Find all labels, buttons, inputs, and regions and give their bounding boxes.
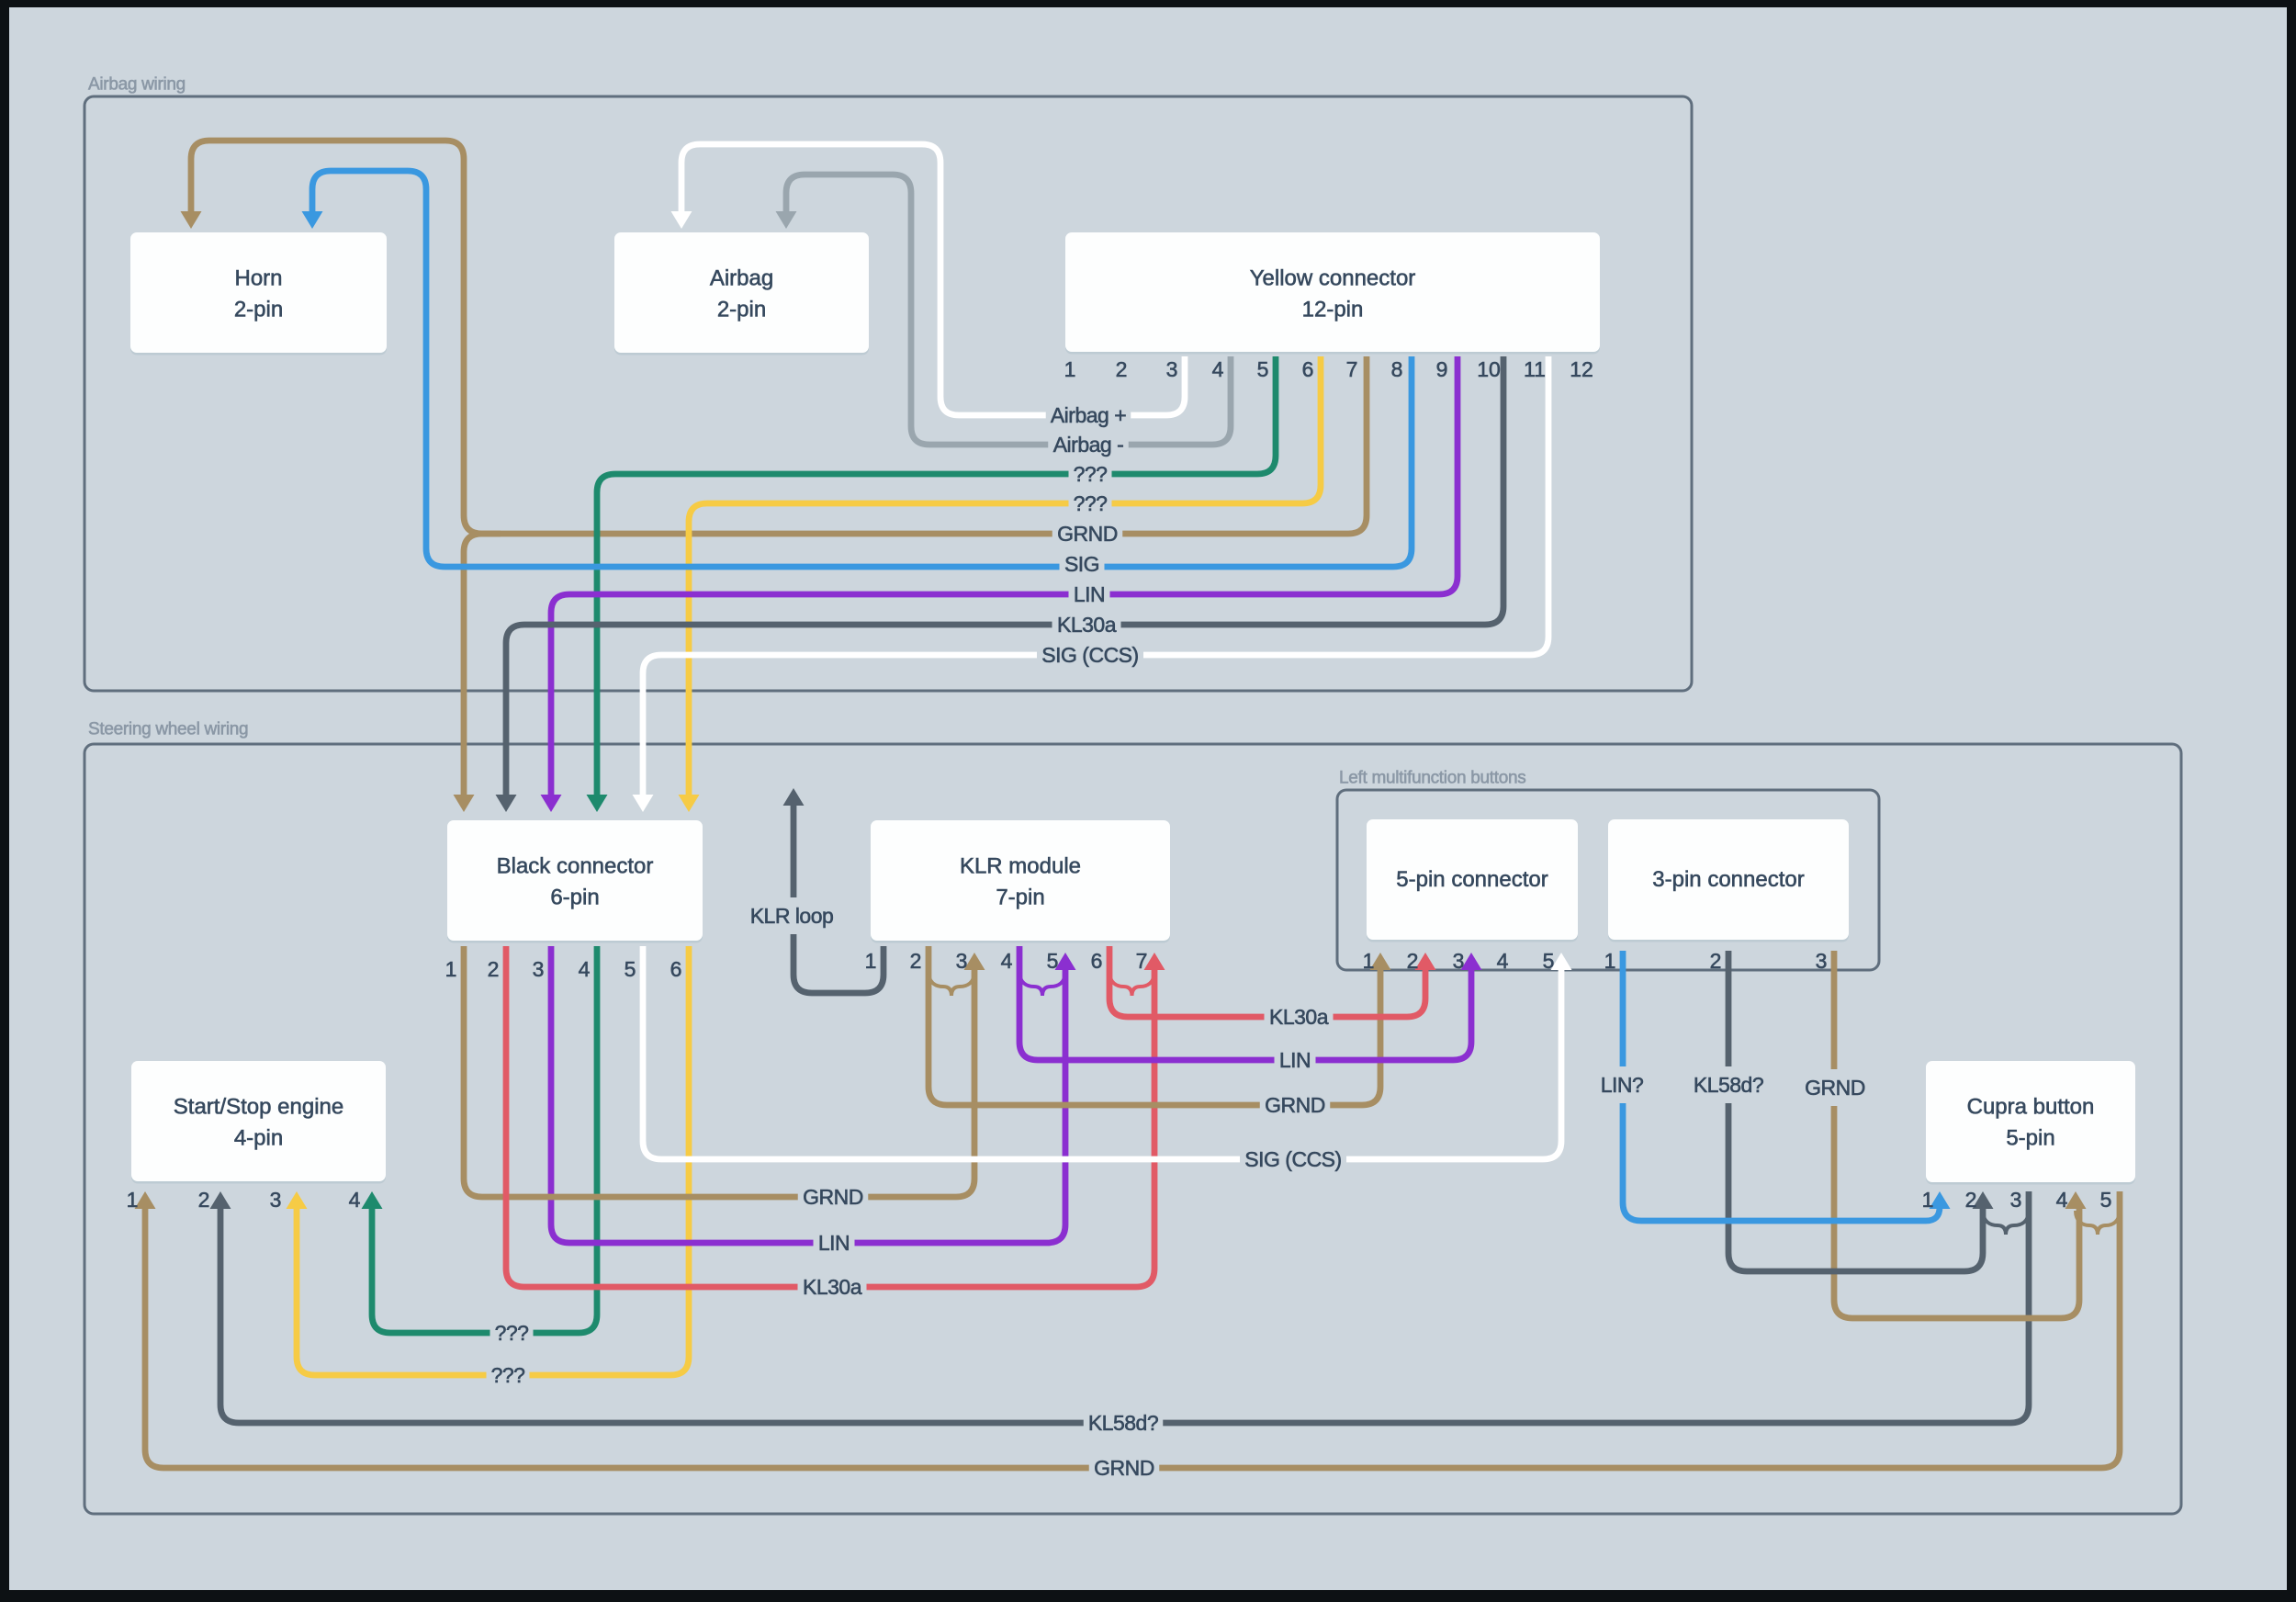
svg-text:2: 2	[1116, 357, 1128, 381]
container Airbag wiring	[84, 75, 1692, 692]
label KL30a top	[1052, 609, 1121, 640]
svg-text:Horn: Horn	[234, 266, 282, 291]
svg-text:4: 4	[579, 957, 591, 981]
svg-text:1: 1	[1363, 949, 1375, 973]
label ??? green row top	[1069, 458, 1112, 490]
arrowhead into 5-pin connector	[1551, 953, 1572, 970]
svg-text:6: 6	[670, 957, 682, 981]
svg-text:???: ???	[1074, 462, 1108, 486]
svg-text:2: 2	[1710, 949, 1722, 973]
svg-text:???: ???	[1074, 491, 1108, 515]
svg-text:4-pin: 4-pin	[234, 1126, 283, 1151]
svg-text:2: 2	[1965, 1188, 1977, 1212]
arrowhead into Start/Stop engine	[362, 1191, 383, 1209]
arrowhead into KLR module	[964, 953, 985, 970]
label GRND top	[1052, 518, 1123, 549]
arrowhead into Cupra button	[2065, 1191, 2087, 1209]
svg-text:3-pin connector: 3-pin connector	[1652, 867, 1804, 892]
svg-text:SIG (CCS): SIG (CCS)	[1041, 643, 1138, 667]
svg-text:KL30a: KL30a	[1057, 613, 1117, 637]
wire SIG (CCS) from Yellow pin11 to Black pin5	[643, 356, 1548, 797]
arrowhead into Black connector	[454, 795, 475, 812]
connector box KLR module	[871, 820, 1170, 943]
svg-text:5: 5	[1047, 949, 1059, 973]
wire Airbag - from Yellow pin4 to Airbag	[786, 175, 1231, 445]
pin numbers KLR module	[865, 949, 1148, 973]
wire ??? Black pin6 to Start/Stop pin3	[297, 946, 689, 1375]
svg-text:5-pin: 5-pin	[2006, 1126, 2054, 1151]
svg-text:3: 3	[2010, 1188, 2022, 1212]
arrowhead into KLR module	[1144, 953, 1165, 970]
label LIN top	[1069, 579, 1110, 610]
svg-text:7-pin: 7-pin	[996, 886, 1044, 910]
svg-text:4: 4	[349, 1188, 361, 1212]
svg-text:Airbag +: Airbag +	[1051, 403, 1126, 427]
svg-text:11: 11	[1524, 357, 1546, 381]
label GRND mid	[1260, 1089, 1331, 1121]
svg-text:4: 4	[1212, 357, 1224, 381]
svg-text:2: 2	[910, 949, 922, 973]
svg-text:SIG: SIG	[1064, 552, 1099, 576]
svg-text:5: 5	[1257, 357, 1269, 381]
wire LIN from Yellow pin9 to Black pin3	[551, 356, 1458, 797]
svg-text:Black connector: Black connector	[497, 854, 654, 879]
wire ??? from Yellow pin6 to Black pin6	[689, 356, 1321, 797]
svg-text:3: 3	[1453, 949, 1465, 973]
wire GRND Horn branch (Yellow pin7 / Horn)	[191, 141, 501, 534]
wire ??? from Yellow pin5 to Black pin4	[597, 356, 1276, 797]
svg-text:1: 1	[1922, 1188, 1934, 1212]
svg-text:Yellow connector: Yellow connector	[1250, 266, 1416, 291]
svg-text:KL58d?: KL58d?	[1088, 1411, 1158, 1435]
label KLR loop	[745, 897, 838, 934]
svg-text:GRND: GRND	[1057, 522, 1118, 546]
svg-text:3: 3	[956, 949, 968, 973]
wire GRND Black pin1 to KLR pin3	[464, 946, 974, 1197]
wire GRND from Yellow pin7 to Black pin1	[464, 356, 1367, 797]
arrowhead into Start/Stop engine	[135, 1191, 156, 1209]
svg-text:Left multifunction buttons: Left multifunction buttons	[1339, 769, 1525, 788]
svg-text:KLR loop: KLR loop	[750, 904, 834, 928]
svg-text:GRND: GRND	[1265, 1093, 1325, 1117]
svg-text:6: 6	[1302, 357, 1314, 381]
label KL30a mid	[1265, 1001, 1334, 1032]
svg-text:6-pin: 6-pin	[550, 886, 599, 910]
connector box 5-pin connector	[1367, 819, 1578, 942]
wire KL30a KLR pin6 to 5-pin pin2	[1109, 946, 1425, 1017]
wire GRND KLR pin2 to 5-pin pin1	[929, 946, 1380, 1105]
svg-text:9: 9	[1436, 357, 1448, 381]
svg-text:LIN: LIN	[818, 1231, 850, 1255]
label ??? green row bottom	[490, 1317, 534, 1348]
wire KL58d? Cupra pin3 to Start/Stop pin2	[220, 1191, 2029, 1423]
wire KL58d? 3-pin pin2 to Cupra pin2	[1728, 951, 1983, 1271]
wire LIN? 3-pin pin1 to Cupra pin1	[1623, 951, 1940, 1221]
svg-text:Airbag -: Airbag -	[1053, 433, 1124, 457]
svg-text:KLR module: KLR module	[960, 854, 1081, 879]
pin numbers 3-pin connector	[1604, 949, 1828, 973]
label KL30a lower	[798, 1271, 867, 1303]
arrowhead into 5-pin connector	[1415, 953, 1436, 970]
connector box Yellow connector	[1065, 232, 1600, 355]
svg-text:2-pin: 2-pin	[717, 298, 766, 322]
brace KLR pins 4-5	[1019, 972, 1065, 996]
wire SIG (CCS) Black pin5 to 5-pin pin5	[643, 946, 1561, 1159]
svg-text:2: 2	[1407, 949, 1419, 973]
svg-text:2: 2	[488, 957, 500, 981]
label KL58d? vertical	[1689, 1066, 1769, 1103]
label SIG (CCS) mid	[1240, 1144, 1346, 1175]
svg-text:12-pin: 12-pin	[1302, 298, 1364, 322]
brace KLR pins 6-7	[1109, 972, 1154, 996]
svg-text:Airbag: Airbag	[710, 266, 773, 291]
brace Cupra pins 4-5	[2076, 1211, 2120, 1235]
pin numbers Black connector	[445, 957, 682, 981]
svg-text:4: 4	[2056, 1188, 2068, 1212]
wire GRND Cupra pin5 to Start/Stop pin1	[145, 1191, 2120, 1468]
svg-text:1: 1	[865, 949, 877, 973]
svg-text:SIG (CCS): SIG (CCS)	[1244, 1147, 1341, 1171]
connector box Horn	[130, 232, 387, 355]
svg-text:GRND: GRND	[1094, 1456, 1154, 1480]
arrowhead into 5-pin connector	[1461, 953, 1482, 970]
svg-text:Steering wheel wiring: Steering wheel wiring	[88, 720, 248, 739]
label ??? yellow row top	[1069, 488, 1112, 519]
svg-text:1: 1	[445, 957, 457, 981]
arrowhead into Horn pin1	[181, 211, 202, 229]
svg-text:12: 12	[1570, 357, 1593, 381]
label LIN? vertical	[1595, 1066, 1649, 1103]
arrowhead into Start/Stop engine	[210, 1191, 231, 1209]
arrowhead into Horn pin2	[302, 211, 323, 229]
connector box Cupra button	[1926, 1061, 2135, 1185]
arrowhead into Airbag pin2	[776, 211, 797, 229]
svg-text:LIN: LIN	[1074, 582, 1105, 606]
arrowhead into Black connector	[587, 795, 608, 812]
arrowhead into Black connector	[633, 795, 654, 812]
label SIG (CCS) top	[1037, 639, 1143, 671]
wire LIN Black pin3 to KLR pin5	[551, 946, 1065, 1243]
brace Cupra pins 2-3	[1983, 1211, 2029, 1235]
svg-text:KL30a: KL30a	[1269, 1005, 1329, 1029]
arrowhead into Airbag pin1	[671, 211, 692, 229]
wire ??? Black pin4 to Start/Stop pin4	[372, 946, 597, 1333]
svg-text:KL30a: KL30a	[803, 1275, 862, 1299]
svg-text:3: 3	[270, 1188, 282, 1212]
arrowhead into Black connector	[496, 795, 517, 812]
svg-text:1: 1	[1064, 357, 1076, 381]
pin numbers Start/Stop engine	[127, 1188, 361, 1212]
wire SIG from Yellow pin8 to Horn	[312, 171, 1412, 567]
svg-text:KL58d?: KL58d?	[1694, 1073, 1763, 1097]
wire KLR loop at KLR pin1	[793, 803, 884, 993]
svg-text:1: 1	[1604, 949, 1616, 973]
svg-text:5-pin connector: 5-pin connector	[1396, 867, 1548, 892]
svg-text:8: 8	[1391, 357, 1403, 381]
arrowhead into KLR module	[1055, 953, 1076, 970]
svg-text:2-pin: 2-pin	[234, 298, 283, 322]
svg-text:5: 5	[625, 957, 636, 981]
label GRND lower	[798, 1181, 869, 1213]
arrowhead into 5-pin connector	[1370, 953, 1391, 970]
svg-text:???: ???	[495, 1321, 529, 1345]
container Left multifunction buttons	[1337, 769, 1879, 971]
label LIN lower	[814, 1227, 855, 1258]
wire LIN KLR pin4 to 5-pin pin3	[1019, 946, 1471, 1060]
svg-text:3: 3	[533, 957, 545, 981]
svg-text:4: 4	[1497, 949, 1509, 973]
wire KL30a from Yellow pin10 to Black pin2	[506, 356, 1503, 797]
svg-text:GRND: GRND	[803, 1185, 863, 1209]
pin numbers 5-pin connector	[1363, 949, 1555, 973]
svg-text:2: 2	[198, 1188, 210, 1212]
arrowhead into Black connector	[679, 795, 700, 812]
svg-text:7: 7	[1346, 357, 1358, 381]
arrowhead into Start/Stop engine	[287, 1191, 308, 1209]
svg-text:Cupra button: Cupra button	[1967, 1095, 2095, 1120]
svg-text:6: 6	[1091, 949, 1103, 973]
label GRND bottom	[1089, 1452, 1160, 1484]
svg-text:GRND: GRND	[1805, 1076, 1865, 1100]
arrowhead into Cupra button	[1973, 1191, 1994, 1209]
arrowhead into Cupra button	[1930, 1191, 1951, 1209]
label SIG	[1060, 548, 1105, 580]
svg-text:5: 5	[2100, 1188, 2112, 1212]
svg-text:???: ???	[491, 1363, 525, 1387]
label KL58d? bottom	[1084, 1407, 1164, 1438]
container Steering wheel wiring	[84, 720, 2181, 1515]
arrowhead KLR loop up	[783, 788, 805, 806]
svg-text:3: 3	[1166, 357, 1178, 381]
arrowhead into Black connector	[541, 795, 562, 812]
connector box 3-pin connector	[1608, 819, 1849, 942]
svg-text:1: 1	[127, 1188, 139, 1212]
svg-text:10: 10	[1477, 357, 1501, 381]
label ??? yellow row bottom	[487, 1359, 530, 1391]
connector box Black connector	[447, 820, 703, 943]
svg-text:3: 3	[1816, 949, 1828, 973]
wire Airbag + from Yellow pin3 to Airbag	[681, 144, 1185, 415]
svg-text:Airbag wiring: Airbag wiring	[88, 75, 186, 95]
wire KL30a Black pin2 to KLR pin7	[506, 946, 1154, 1287]
label LIN mid	[1275, 1044, 1316, 1076]
svg-text:7: 7	[1136, 949, 1148, 973]
pin numbers Yellow connector	[1064, 357, 1593, 381]
svg-text:5: 5	[1543, 949, 1555, 973]
connector box Start/Stop engine	[131, 1061, 386, 1184]
pin numbers Cupra button	[1922, 1188, 2112, 1212]
svg-text:4: 4	[1001, 949, 1013, 973]
svg-text:Start/Stop engine: Start/Stop engine	[174, 1095, 343, 1120]
brace KLR pins 2-3	[929, 972, 974, 996]
connector box Airbag	[614, 232, 869, 355]
wire GRND 3-pin pin3 to Cupra pin4	[1834, 951, 2079, 1318]
svg-text:LIN: LIN	[1279, 1048, 1311, 1072]
label Airbag +	[1046, 400, 1131, 431]
svg-text:LIN?: LIN?	[1601, 1073, 1644, 1097]
label Airbag -	[1048, 429, 1129, 460]
label GRND vertical	[1800, 1069, 1871, 1106]
